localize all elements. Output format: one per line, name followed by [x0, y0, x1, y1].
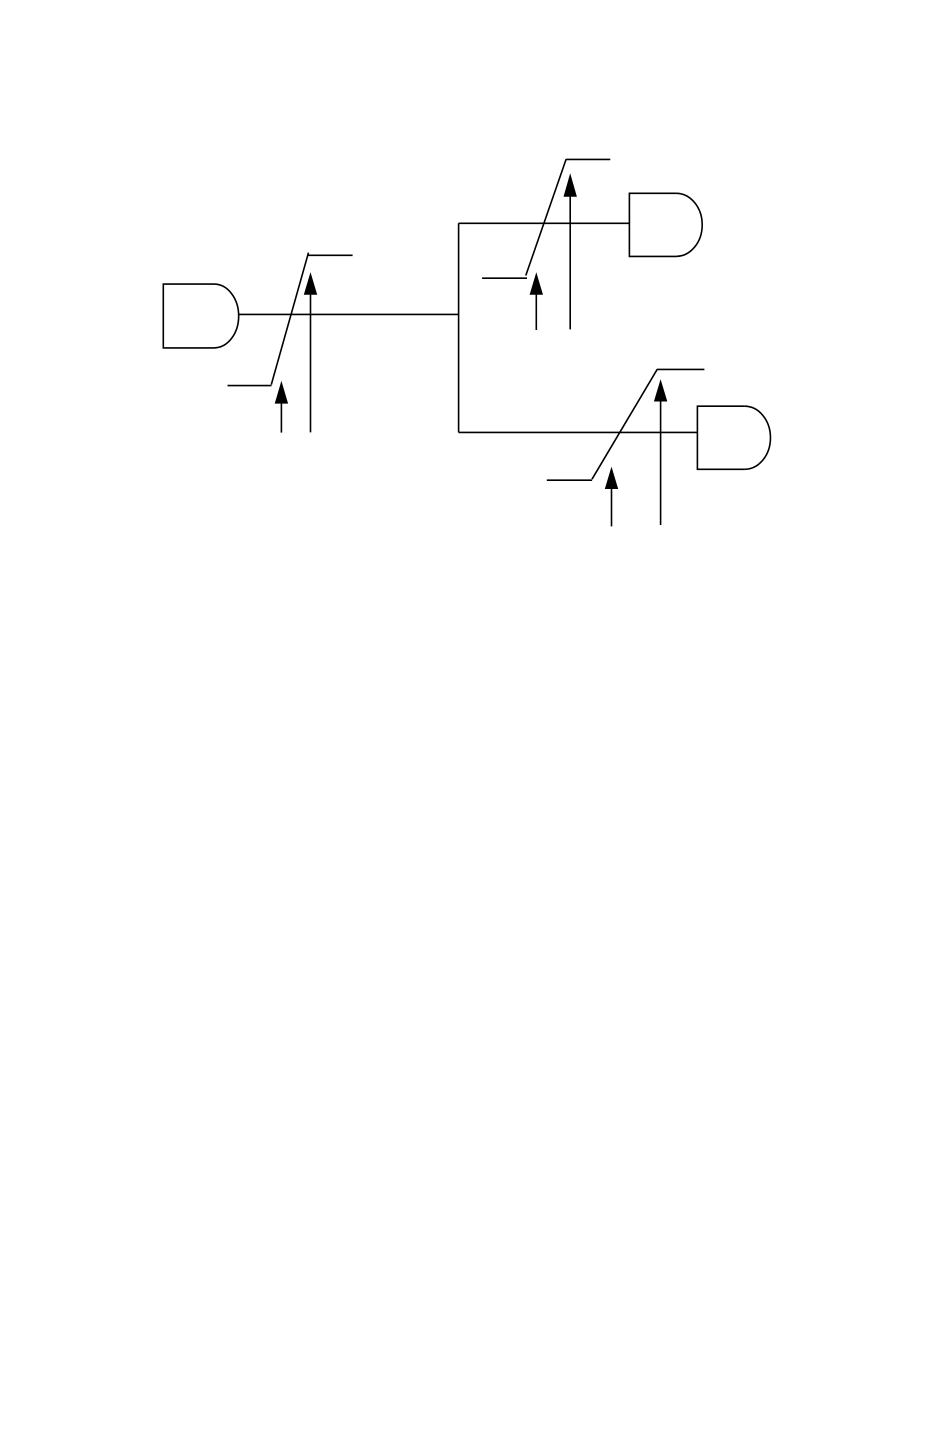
- wire from G1 output to branch node: [239, 313, 459, 315]
- S1 short arrow: [275, 381, 288, 433]
- AND gate G1 (left): [163, 284, 238, 348]
- wire branch vertical trunk: [458, 223, 460, 432]
- S1 top tick: [307, 254, 352, 256]
- S3 short arrow: [605, 467, 618, 527]
- S3 long arrow: [654, 379, 667, 525]
- S3 bottom tick: [547, 479, 592, 481]
- transition symbol S1 slash: [271, 253, 308, 385]
- S2 long arrow: [564, 173, 577, 329]
- S2 bottom tick: [482, 277, 527, 279]
- transition symbol S2 slash: [526, 159, 566, 276]
- AND gate G2 (top right): [629, 193, 702, 256]
- S3 top tick: [657, 368, 704, 370]
- AND gate G3 (bottom right): [697, 406, 770, 469]
- S1 long arrow: [304, 272, 317, 432]
- S2 top tick: [566, 158, 610, 160]
- wire top branch to G2: [459, 222, 630, 224]
- S1 bottom tick: [228, 385, 272, 387]
- wire bottom branch to G3: [459, 431, 698, 433]
- transition symbol S3 slash: [592, 369, 657, 479]
- S2 short arrow: [530, 272, 543, 330]
